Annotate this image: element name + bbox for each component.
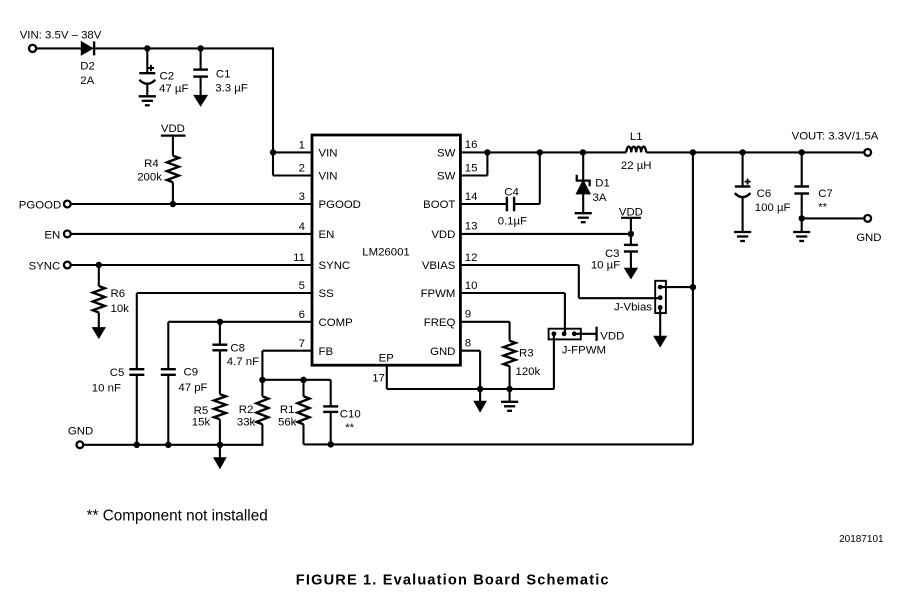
svg-text:VDD: VDD: [161, 123, 185, 135]
junction R4 on PGOOD line: [170, 201, 176, 207]
svg-text:10k: 10k: [111, 303, 130, 315]
junction C4 on SW rail: [537, 149, 543, 155]
note document number 20187101: [839, 534, 884, 545]
svg-text:120k: 120k: [516, 366, 541, 378]
svg-text:**: **: [818, 201, 827, 213]
diode D1 schottky: [577, 175, 610, 213]
svg-text:12: 12: [465, 252, 478, 264]
wire J-Vbias bottom pin down: [659, 307, 661, 336]
svg-text:SS: SS: [319, 288, 335, 300]
junction C6 on VOUT rail: [739, 149, 745, 155]
svg-text:47 pF: 47 pF: [178, 382, 207, 394]
wire C4 to SW rail: [514, 152, 540, 204]
wire R6 to ground arrow: [98, 313, 100, 328]
ground arrow below C1: [194, 95, 207, 105]
svg-text:14: 14: [465, 191, 478, 203]
ground below C7: [793, 232, 810, 241]
svg-text:200k: 200k: [137, 172, 162, 184]
svg-text:C1: C1: [216, 69, 231, 81]
resistor R6: [93, 286, 129, 315]
svg-text:FIGURE 1. Evaluation Board Sch: FIGURE 1. Evaluation Board Schematic: [296, 572, 610, 588]
capacitor C9: [161, 366, 208, 394]
wire SS pin 5 to C5 branch: [137, 293, 312, 369]
svg-text:COMP: COMP: [319, 317, 353, 329]
ground arrow below ground line: [474, 389, 486, 412]
svg-text:C3: C3: [605, 248, 620, 260]
wire VDD pin 13 line: [460, 233, 631, 235]
svg-text:11: 11: [293, 252, 305, 264]
ground below R3: [501, 389, 518, 411]
capacitor C1: [193, 48, 248, 95]
svg-text:BOOT: BOOT: [423, 199, 455, 211]
junction C1 on VIN rail: [197, 45, 203, 51]
svg-text:J-Vbias: J-Vbias: [614, 302, 652, 314]
svg-text:SW: SW: [437, 171, 456, 183]
junction VDD C3 node: [628, 231, 634, 237]
wire R1 to VOUT sense line: [302, 424, 304, 444]
capacitor C10: [323, 380, 361, 434]
svg-text:SYNC: SYNC: [319, 260, 351, 272]
node VOUT terminal: [792, 131, 879, 156]
power VDD symbol above R4: [161, 123, 186, 135]
svg-text:C6: C6: [757, 188, 772, 200]
junction pin 8 on ground line: [477, 386, 483, 392]
junction FB node at R1: [300, 377, 306, 383]
wire VDD to R4: [172, 136, 174, 156]
junction R3 on ground line: [506, 386, 512, 392]
resistor R2: [237, 380, 269, 429]
svg-text:C8: C8: [230, 342, 245, 354]
svg-text:100 µF: 100 µF: [755, 202, 791, 214]
wire FREQ pin 9 to R3: [460, 322, 509, 341]
capacitor C5: [92, 367, 145, 394]
wire J-FPWM right pin to VDD stub: [574, 333, 596, 335]
wire GND node to GND terminal: [802, 217, 865, 219]
junction C10 on VOUT sense line: [328, 441, 334, 447]
svg-text:3A: 3A: [593, 192, 607, 204]
svg-text:VDD: VDD: [600, 331, 624, 343]
svg-text:** Component not installed: ** Component not installed: [87, 507, 268, 524]
wire R2 to GND rail: [261, 424, 263, 446]
svg-text:VDD: VDD: [619, 206, 643, 218]
svg-text:13: 13: [465, 221, 478, 233]
svg-text:22 µH: 22 µH: [621, 160, 652, 172]
svg-text:VOUT: 3.3V/1.5A: VOUT: 3.3V/1.5A: [792, 131, 879, 143]
wire C8 to R5: [219, 350, 221, 394]
ground arrow below J-Vbias: [654, 336, 666, 346]
wire J-FPWM left pin to ground line: [553, 334, 555, 389]
wire R3 to ground line: [509, 366, 511, 389]
svg-text:1: 1: [299, 140, 305, 152]
capacitor C8: [212, 342, 259, 368]
junction VOUT vertical on rail: [690, 149, 696, 155]
node PGOOD terminal: [19, 200, 71, 212]
wire VOUT sense line: [304, 152, 693, 444]
wire SW rail to D1: [582, 152, 584, 180]
svg-text:L1: L1: [630, 131, 643, 143]
wire C7 to GND node: [801, 194, 803, 233]
svg-text:C5: C5: [110, 367, 125, 379]
svg-text:GND: GND: [430, 346, 455, 358]
svg-text:6: 6: [299, 309, 305, 321]
wire SYNC to pin 11: [71, 264, 312, 266]
svg-text:PGOOD: PGOOD: [19, 200, 61, 212]
svg-text:EN: EN: [44, 229, 60, 241]
wire GND rail: [84, 444, 263, 446]
connector J-Vbias: [614, 281, 666, 314]
svg-text:GND: GND: [68, 425, 93, 437]
ground arrow below C3: [625, 268, 638, 278]
junction C7 on VOUT rail: [799, 149, 805, 155]
capacitor C2: [139, 48, 188, 96]
resistor R5: [192, 394, 226, 428]
junction J-Vbias on VOUT vertical: [690, 284, 696, 290]
wire EP pin 17 to ground line: [372, 365, 554, 389]
wire FB pin 7 to divider node: [262, 351, 312, 380]
op-amp U1 LM26001 regulator IC: [293, 135, 477, 365]
svg-text:7: 7: [299, 338, 305, 350]
resistor R1: [278, 380, 310, 429]
junction C7 GND node: [799, 215, 805, 221]
svg-text:R3: R3: [519, 347, 534, 359]
svg-text:C9: C9: [184, 366, 199, 378]
svg-text:15: 15: [465, 162, 478, 174]
capacitor C4: [498, 187, 527, 228]
svg-text:20187101: 20187101: [839, 534, 884, 545]
wire C5 to GND rail: [136, 375, 138, 445]
resistor R3: [504, 341, 541, 378]
svg-text:10: 10: [465, 280, 478, 292]
wire FPWM pin 10 to jumper: [460, 293, 565, 334]
svg-text:R4: R4: [144, 158, 159, 170]
capacitor C6: [735, 152, 791, 232]
svg-text:47 µF: 47 µF: [159, 83, 188, 95]
caption FIGURE 1: [296, 572, 610, 588]
node VIN input terminal: [20, 30, 102, 52]
junction C5 on GND rail: [134, 442, 140, 448]
svg-text:LM26001: LM26001: [362, 247, 410, 259]
ground arrow below R6: [93, 328, 106, 339]
svg-text:5: 5: [299, 280, 305, 292]
svg-text:10 nF: 10 nF: [92, 382, 121, 394]
wire FB node across: [262, 379, 330, 381]
wire COMP pin 6 to C9 branch: [168, 322, 312, 369]
svg-text:VIN: VIN: [319, 148, 338, 160]
wire C9 to GND rail: [167, 375, 169, 445]
wire R5 to GND rail: [219, 419, 221, 445]
resistor R4: [137, 156, 179, 184]
power VDD symbol above C3: [619, 206, 643, 234]
junction C8 on COMP line: [217, 319, 223, 325]
svg-text:0.1µF: 0.1µF: [498, 216, 527, 228]
wire VIN rail down to pin 1: [273, 47, 312, 152]
svg-text:FREQ: FREQ: [424, 317, 456, 329]
node GND terminal bottom-left: [68, 425, 93, 448]
wire SW pin 16 rail: [460, 151, 626, 153]
junction R5 on GND rail: [217, 442, 223, 448]
svg-text:VDD: VDD: [431, 229, 455, 241]
svg-text:C10: C10: [340, 408, 361, 420]
capacitor C7: [794, 152, 832, 213]
wire VIN node to pin 2: [273, 152, 312, 175]
svg-text:J-FPWM: J-FPWM: [562, 344, 606, 356]
svg-text:VIN: 3.5V – 38V: VIN: 3.5V – 38V: [20, 30, 102, 42]
power VDD stub at J-FPWM: [597, 327, 625, 343]
junction SW pins node: [484, 149, 490, 155]
svg-text:SYNC: SYNC: [29, 261, 61, 273]
svg-text:C7: C7: [818, 188, 833, 200]
ground below C6: [734, 232, 751, 241]
svg-text:GND: GND: [856, 232, 881, 244]
capacitor C3: [591, 234, 638, 272]
node SYNC terminal: [29, 261, 71, 273]
svg-text:15k: 15k: [192, 417, 211, 429]
svg-text:D1: D1: [595, 177, 610, 189]
svg-text:C2: C2: [160, 71, 175, 83]
wire C3 to ground arrow: [630, 252, 632, 269]
svg-text:FPWM: FPWM: [421, 288, 456, 300]
svg-text:SW: SW: [437, 148, 456, 160]
node EN terminal: [44, 229, 70, 241]
svg-text:**: **: [345, 422, 354, 434]
svg-text:VBIAS: VBIAS: [422, 260, 456, 272]
wire J-Vbias top pin to VOUT line: [660, 286, 693, 288]
svg-text:VIN: VIN: [319, 171, 338, 183]
wire SW pin 15 up: [460, 152, 487, 175]
wire VBIAS pin 12 to jumper: [460, 265, 660, 298]
junction VIN pins node: [270, 149, 276, 155]
svg-text:R2: R2: [239, 404, 254, 416]
svg-text:10 µF: 10 µF: [591, 260, 620, 272]
svg-text:17: 17: [372, 372, 385, 384]
junction R6 on SYNC line: [96, 262, 102, 268]
junction D1 on SW rail: [580, 149, 586, 155]
svg-text:4: 4: [299, 221, 305, 233]
svg-text:16: 16: [465, 139, 478, 151]
ground arrow below GND rail at R5: [214, 445, 226, 469]
svg-text:FB: FB: [319, 346, 334, 358]
svg-text:EN: EN: [319, 229, 335, 241]
connector J-FPWM: [549, 329, 606, 357]
svg-text:R5: R5: [194, 405, 209, 417]
diode D2: [80, 41, 95, 86]
svg-text:PGOOD: PGOOD: [319, 199, 361, 211]
wire D2 cathode to VIN corner: [95, 47, 273, 49]
svg-text:2: 2: [299, 163, 305, 175]
node GND terminal right: [856, 215, 881, 244]
inductor L1: [621, 131, 652, 172]
svg-text:D2: D2: [80, 60, 95, 72]
svg-text:R6: R6: [111, 288, 126, 300]
junction C2 on VIN rail: [144, 45, 150, 51]
svg-text:4.7 nF: 4.7 nF: [227, 356, 259, 368]
wire COMP junction down to C8: [219, 322, 221, 345]
ground below C2: [139, 96, 156, 105]
wire C10 to VOUT sense line: [330, 412, 332, 445]
svg-text:EP: EP: [379, 352, 394, 364]
svg-text:56k: 56k: [278, 416, 297, 428]
junction FB node at R2: [259, 377, 265, 383]
svg-text:8: 8: [465, 338, 471, 350]
svg-text:9: 9: [465, 309, 471, 321]
wire EN to pin 4: [71, 233, 312, 235]
wire GND pin 8 down: [460, 351, 480, 389]
note component not installed: [87, 507, 268, 524]
wire PGOOD to pin 3: [71, 203, 312, 205]
wire L1 to VOUT terminal: [646, 151, 864, 153]
svg-text:3: 3: [299, 191, 305, 203]
wire R4 to PGOOD line: [172, 182, 174, 204]
svg-text:C4: C4: [504, 187, 519, 199]
wire SYNC junction to R6: [98, 265, 100, 286]
wire VIN terminal to diode D2 anode: [36, 47, 81, 49]
wire BOOT pin 14 to C4: [460, 203, 507, 205]
svg-text:2A: 2A: [80, 75, 94, 87]
svg-text:33k: 33k: [237, 416, 256, 428]
junction C9 on GND rail: [165, 442, 171, 448]
svg-text:R1: R1: [280, 404, 295, 416]
ground below D1: [575, 213, 592, 222]
svg-text:3.3 µF: 3.3 µF: [215, 83, 248, 95]
